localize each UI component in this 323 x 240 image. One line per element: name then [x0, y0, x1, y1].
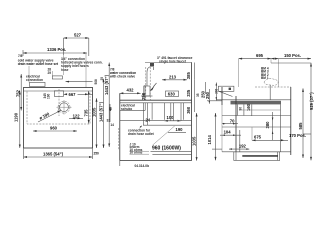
svg-text:190: 190: [47, 93, 51, 99]
bracket dark pin: [229, 88, 231, 90]
dim 735: [84, 91, 90, 124]
dashed inner area: [27, 92, 90, 125]
dim 104: [220, 130, 241, 136]
worktop section: [120, 100, 192, 103]
countertop dark band: [231, 101, 282, 105]
svg-text:1365 (54”): 1365 (54”): [43, 151, 64, 156]
svg-text:122: 122: [73, 113, 81, 118]
note faucet top: [157, 56, 193, 64]
svg-text:508: 508: [94, 79, 98, 85]
drain circle: [60, 103, 69, 112]
svg-text:7/8: 7/8: [18, 54, 23, 58]
leader arrow bold: [150, 83, 157, 91]
dim 213: [162, 74, 187, 81]
svg-text:298: 298: [141, 92, 146, 100]
dim 667: [64, 92, 93, 97]
svg-text:360: 360: [186, 106, 191, 114]
left view outer rect: [24, 88, 93, 149]
dim 1014 rot left: [207, 113, 217, 160]
dim 380 rot: [265, 112, 273, 140]
note cold water left: [18, 54, 59, 66]
svg-text:100: 100: [167, 115, 175, 120]
dim 1365 bottom: [24, 149, 100, 160]
dim 70: [222, 119, 238, 125]
dim 360 rot: [186, 95, 195, 113]
svg-text:335: 335: [186, 89, 191, 97]
svg-text:667: 667: [69, 92, 77, 97]
faucet symbol: [141, 63, 192, 101]
svg-text:213: 213: [169, 74, 177, 79]
svg-text:385: 385: [186, 72, 191, 80]
top right frame line: [271, 63, 312, 160]
svg-text:250: 250: [94, 152, 100, 156]
dim 752 left: [16, 74, 23, 111]
note electrical schuko: [120, 103, 145, 111]
cabinet outline: [120, 63, 192, 161]
leader line faucet: [66, 81, 93, 83]
dim 1443 rot mid-left: [104, 63, 119, 151]
svg-text:192: 192: [239, 144, 247, 149]
svg-text:1336 Pos.: 1336 Pos.: [47, 47, 66, 52]
drawer verticals: [236, 104, 238, 115]
svg-text:24: 24: [145, 117, 150, 122]
small right dims 40/32: [107, 104, 113, 123]
countertop second edge: [24, 90, 93, 92]
svg-text:585: 585: [298, 122, 303, 130]
dim 335 rot: [186, 80, 195, 97]
dim 298 rot: [141, 85, 146, 100]
svg-text:35: 35: [196, 93, 200, 97]
note water connection: [109, 68, 136, 79]
svg-text:single hole faucet: single hole faucet: [159, 60, 187, 64]
dim 630 boxed: [166, 91, 179, 97]
svg-text:380: 380: [265, 121, 270, 129]
svg-text:29: 29: [48, 71, 52, 75]
svg-text:1035: 1035: [191, 136, 196, 146]
dim 385 rot: [186, 63, 195, 80]
svg-text:BM 1: BM 1: [261, 76, 269, 80]
small dims 28/29: [48, 68, 52, 76]
svg-text:190: 190: [176, 127, 184, 132]
leader note drain: [128, 126, 155, 137]
leader dia 190: [38, 110, 61, 122]
dim 585 rot: [298, 88, 304, 158]
note hoses: [261, 67, 269, 81]
note bottom block: [130, 143, 150, 155]
svg-text:1035: 1035: [91, 107, 96, 117]
svg-text:hose: hose: [61, 68, 69, 72]
dim 190: [168, 127, 186, 132]
svg-text:32: 32: [107, 119, 111, 123]
dim 1035 mid right: [191, 113, 197, 161]
svg-text:735: 735: [84, 109, 89, 117]
dim 250 rot: [205, 83, 222, 104]
plinth dark kick band: [242, 155, 278, 157]
svg-text:1443 (57”): 1443 (57”): [98, 101, 103, 122]
dim 170 Pos.: [289, 133, 311, 138]
svg-text:150 Pos.: 150 Pos.: [284, 53, 301, 58]
dim 1443 right: [98, 79, 104, 148]
rotated small dims 345/190: [43, 93, 51, 99]
svg-text:10 ohms: 10 ohms: [130, 150, 143, 154]
dim 432: [120, 87, 141, 94]
dim 960: [33, 126, 77, 133]
svg-text:630: 630: [168, 92, 176, 97]
svg-text:675: 675: [254, 135, 262, 140]
dim 1035 right: [91, 98, 97, 148]
hob cutout rect: [54, 91, 63, 97]
dim 122: [69, 113, 83, 119]
valve box A: [30, 82, 46, 86]
svg-text:104: 104: [224, 130, 232, 135]
svg-text:960: 960: [50, 126, 58, 131]
svg-text:70: 70: [230, 119, 235, 124]
side view body: [222, 87, 291, 155]
dim 250 rot mid: [201, 82, 206, 98]
svg-text:695: 695: [256, 53, 264, 58]
inner vertical lines: [143, 103, 145, 125]
fitting box B: [52, 76, 62, 79]
svg-text:1014: 1014: [207, 135, 212, 145]
svg-text:with check valve: with check valve: [109, 75, 135, 79]
svg-text:960 (1600W): 960 (1600W): [152, 145, 181, 151]
svg-text:04.314-0b: 04.314-0b: [135, 164, 150, 168]
svg-text:527: 527: [74, 33, 82, 38]
leader wires: [28, 66, 30, 82]
svg-text:432: 432: [127, 87, 135, 92]
dim 100: [164, 115, 181, 122]
dim 527: [64, 33, 89, 57]
svg-text:250: 250: [205, 91, 210, 99]
svg-text:929 (37”): 929 (37”): [309, 92, 314, 110]
dashed wall line: [255, 86, 291, 88]
dim 675: [252, 127, 288, 141]
dim 1190 left: [13, 91, 21, 148]
svg-text:14: 14: [110, 123, 114, 127]
diagonal door swing: [153, 126, 175, 145]
bracket diagonal: [219, 91, 233, 96]
svg-text:drain water outlet hose set: drain water outlet hose set: [18, 62, 59, 66]
svg-text:1443 (57”): 1443 (57”): [104, 74, 109, 95]
body bottom line: [222, 151, 291, 153]
dim 192: [212, 144, 249, 150]
dim 1336 Pos.: [23, 47, 87, 56]
hose cloud: [264, 78, 278, 85]
svg-text:connection: connection: [26, 78, 43, 82]
svg-text:drain hose outlet: drain hose outlet: [128, 132, 155, 136]
svg-text:170 Pos.: 170 Pos.: [289, 133, 306, 138]
dim 160 rot: [246, 103, 252, 116]
note electrical connection: [26, 75, 43, 83]
svg-text:1190: 1190: [13, 112, 18, 122]
plinth recessed box: [234, 152, 280, 161]
dim 695 + 150 Pos.: [239, 53, 311, 87]
note hot water right: [61, 57, 103, 72]
bracket rect: [218, 86, 234, 91]
